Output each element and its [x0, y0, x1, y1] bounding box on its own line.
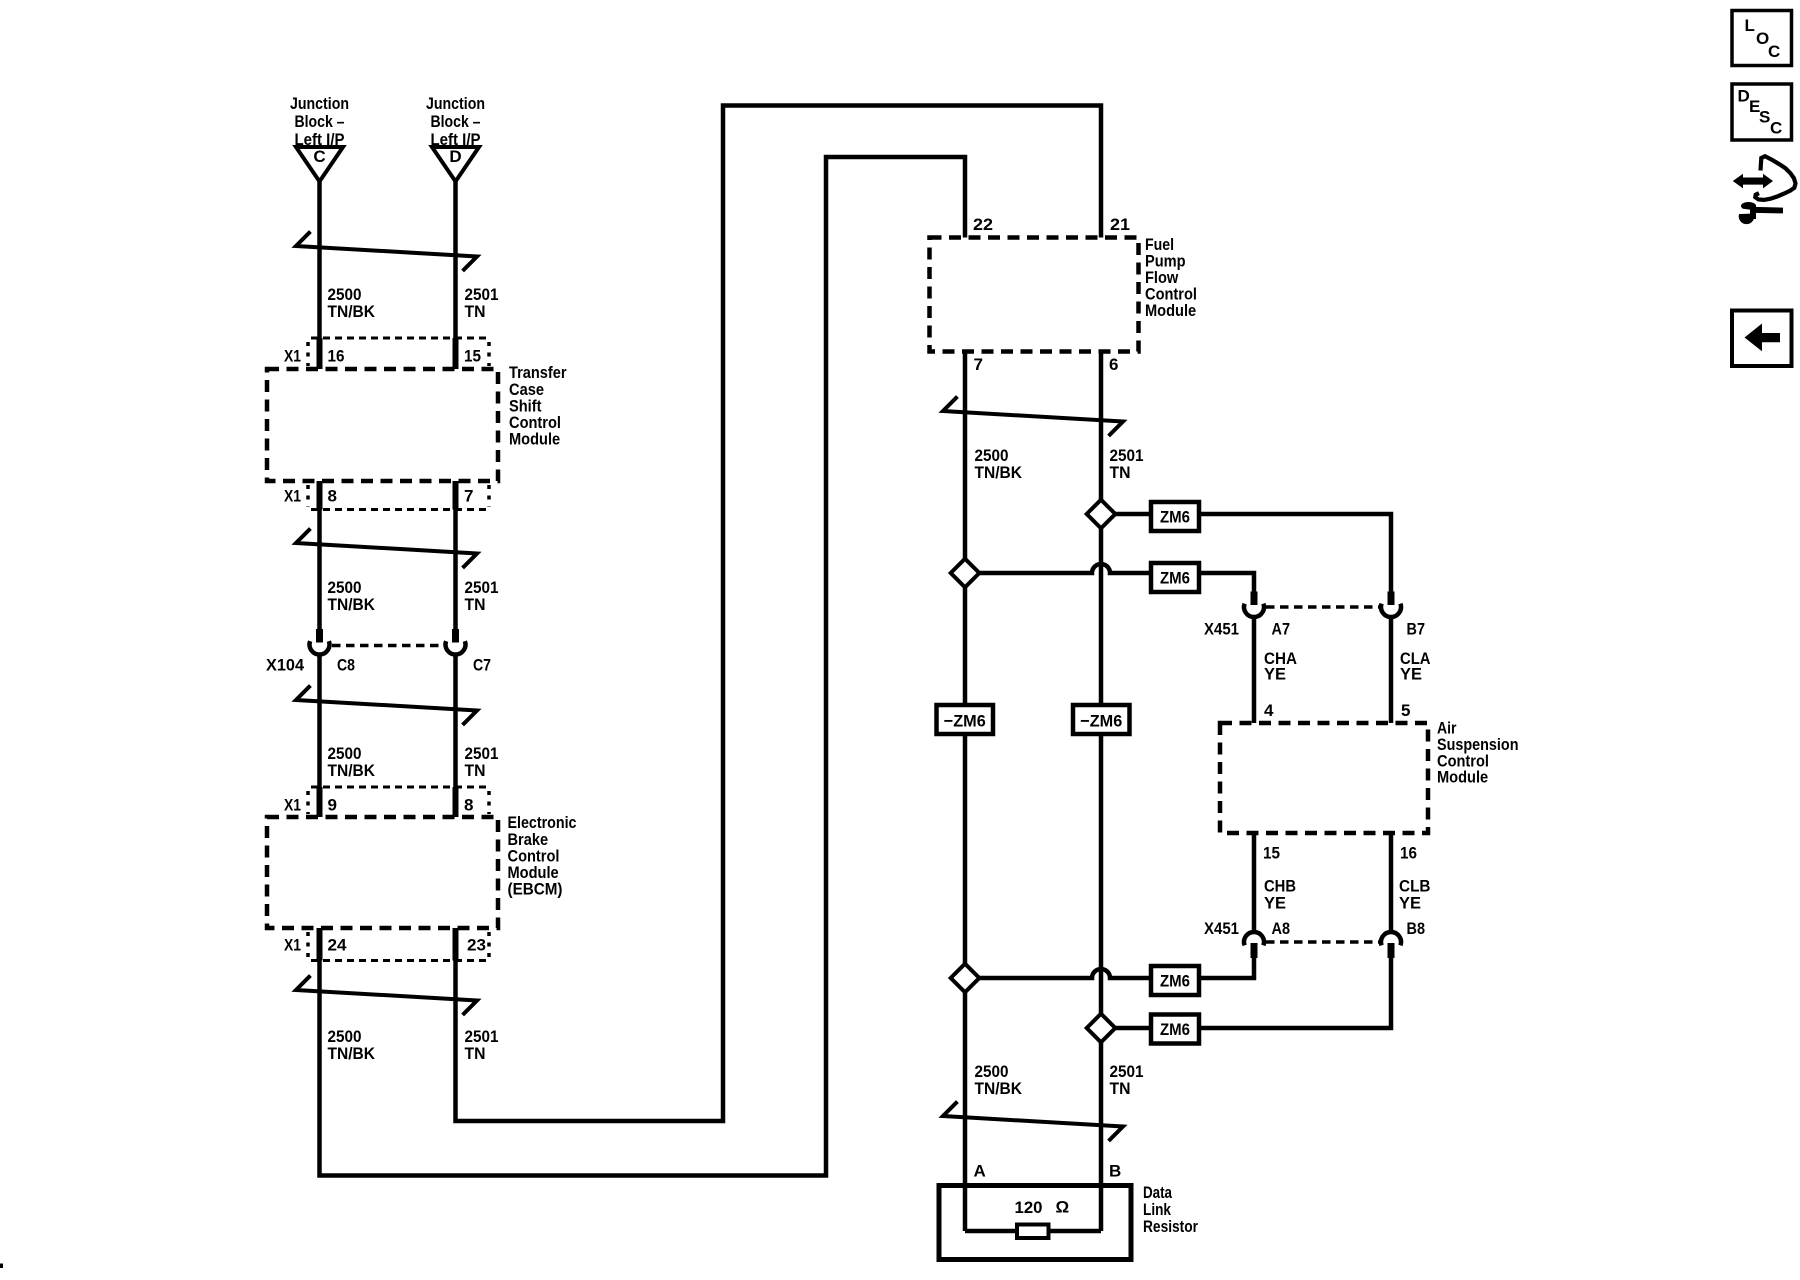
svg-text:L: L [1745, 16, 1755, 35]
connector X1 pin row dashed outline at y=338 [311, 337, 489, 340]
svg-text:16: 16 [328, 347, 345, 366]
svg-text:S: S [1759, 108, 1770, 127]
wire 2501 TN Transfer Case pin 7 to X104 C7 [453, 481, 458, 629]
wire 2500 TN/BK from junction block C down to Transfer Case module [317, 180, 322, 369]
svg-text:X1: X1 [284, 487, 301, 506]
svg-text:21: 21 [1110, 215, 1130, 234]
svg-text:X1: X1 [284, 936, 301, 955]
junction block C triangle [296, 147, 343, 182]
svg-text:Module: Module [509, 430, 560, 449]
svg-text:Module: Module [1145, 301, 1196, 320]
twisted pair symbol crossing both wires at y=543 [296, 530, 477, 567]
wire node on 2500 to ZM6 (hops over 2501) and down to X451 A7 [965, 564, 1254, 592]
LOC icon box [1732, 11, 1792, 66]
wire CHB YE from air suspension pin 15 to X451 A8 [1252, 833, 1257, 933]
Fuel Pump Flow Control Module box [930, 238, 1139, 352]
svg-text:YE: YE [1264, 665, 1286, 684]
svg-text:9: 9 [328, 796, 337, 815]
svg-text:A: A [974, 1162, 986, 1181]
svg-text:B8: B8 [1407, 919, 1426, 938]
svg-text:ZM6: ZM6 [1160, 569, 1190, 588]
svg-text:A7: A7 [1272, 620, 1291, 639]
back arrow icon box [1732, 311, 1792, 367]
harness tag ZM6 tag lower right [1151, 1015, 1199, 1044]
svg-text:TN/BK: TN/BK [328, 595, 376, 614]
svg-text:Block –: Block – [431, 112, 481, 131]
harness tag ZM6 tag upper right [1151, 502, 1199, 531]
splice diamond node on 2501 (lower) [1087, 1014, 1116, 1043]
svg-text:D: D [449, 147, 461, 166]
svg-text:TN: TN [465, 302, 486, 321]
twisted pair symbol crossing both wires at y=700 [296, 687, 477, 724]
svg-text:16: 16 [1400, 844, 1417, 863]
wire 2500 TN/BK EBCM pin 24 routed right and up to fuel pump pin 22 [320, 157, 966, 1176]
DESC icon box [1732, 84, 1792, 140]
svg-text:X1: X1 [284, 347, 301, 366]
svg-text:23: 23 [467, 936, 486, 955]
wire 2501 TN X104 C7 to EBCM pin 8 [453, 656, 458, 817]
svg-text:TN/BK: TN/BK [975, 463, 1023, 482]
wire 2500 TN/BK X104 C8 to EBCM pin 9 [317, 656, 322, 817]
svg-text:X451: X451 [1204, 620, 1239, 639]
svg-text:YE: YE [1400, 665, 1422, 684]
svg-text:C: C [1770, 119, 1782, 138]
svg-text:TN/BK: TN/BK [328, 761, 376, 780]
X104 dashed connector line [332, 644, 443, 648]
svg-text:C8: C8 [337, 656, 355, 675]
Air Suspension Control Module box [1220, 723, 1428, 833]
wire inside data link resistor box [965, 1229, 1101, 1234]
connector X1 pin row dashed outline at y=928 [311, 959, 489, 962]
svg-text:D: D [1738, 87, 1750, 106]
harness tag -ZM6 on 2500 [937, 705, 994, 734]
wire terminal bars through pin row y=338 [317, 338, 323, 369]
resistor 120 ohm symbol [1017, 1225, 1049, 1239]
svg-text:TN: TN [1110, 1079, 1131, 1098]
svg-text:TN/BK: TN/BK [328, 302, 376, 321]
svg-text:−ZM6: −ZM6 [1080, 712, 1122, 731]
svg-text:C7: C7 [473, 656, 491, 675]
splice diamond node on 2500 (lower) [951, 964, 980, 993]
svg-text:C: C [1768, 42, 1780, 61]
inline connector X104 C8 [316, 629, 323, 643]
wire CHA YE from X451 A7 to air suspension pin 4 [1252, 617, 1257, 724]
splice diamond node on 2500 (upper) [951, 559, 980, 588]
svg-text:X1: X1 [284, 796, 301, 815]
Data Link Resistor box [939, 1186, 1131, 1260]
svg-text:−ZM6: −ZM6 [944, 712, 986, 731]
wire 2500 TN/BK Transfer Case pin 8 to X104 C8 [317, 481, 322, 629]
svg-text:15: 15 [1263, 844, 1280, 863]
svg-text:A8: A8 [1272, 919, 1291, 938]
svg-text:Junction: Junction [426, 94, 485, 113]
svg-text:X451: X451 [1204, 919, 1239, 938]
svg-text:TN/BK: TN/BK [975, 1079, 1023, 1098]
X451 dashed connector line (A7-B7) [1266, 605, 1379, 609]
svg-text:7: 7 [974, 355, 983, 374]
svg-text:Resistor: Resistor [1143, 1217, 1198, 1236]
harness tag ZM6 tag lower left [1151, 966, 1199, 995]
connector X1 pin row dashed outline at y=481 [311, 508, 489, 511]
wire CLA YE from X451 B7 to air suspension pin 5 [1389, 617, 1394, 724]
svg-text:4: 4 [1264, 701, 1274, 720]
svg-text:ZM6: ZM6 [1160, 1020, 1190, 1039]
svg-text:C: C [313, 147, 325, 166]
splice diamond node on 2501 (upper) [1087, 500, 1116, 529]
wire terminal bars through pin row y=787 [317, 787, 323, 817]
svg-text:TN: TN [1110, 463, 1131, 482]
svg-text:ZM6: ZM6 [1160, 972, 1190, 991]
svg-text:24: 24 [328, 936, 348, 955]
svg-text:5: 5 [1401, 701, 1410, 720]
svg-text:TN: TN [465, 761, 486, 780]
svg-text:Junction: Junction [290, 94, 349, 113]
harness tag -ZM6 on 2501 [1073, 705, 1130, 734]
wire 2501 TN from junction block D down to Transfer Case module [453, 180, 458, 369]
wire node on 2501 to ZM6 and up to X451 B8 [1101, 958, 1391, 1028]
svg-text:TN: TN [465, 1044, 486, 1063]
svg-text:Block –: Block – [295, 112, 345, 131]
inline connector X451 A8 [1244, 932, 1264, 945]
wire 2500 TN/BK fuel pump pin 7 down to data link resistor A [963, 352, 968, 1232]
twisted pair symbol crossing both wires at y=1116 [943, 1103, 1123, 1140]
svg-text:6: 6 [1109, 355, 1118, 374]
svg-text:TN: TN [465, 595, 486, 614]
wire 2501 TN fuel pump pin 6 down to data link resistor B [1099, 352, 1104, 1232]
inline connector X451 A7 [1251, 592, 1258, 606]
wire terminal bars through pin row y=481 [317, 481, 323, 510]
harness tag ZM6 tag upper left [1151, 563, 1199, 592]
svg-text:(EBCM): (EBCM) [508, 880, 563, 899]
diagnostic tool icon (double arrow, swoosh, wrench) [1733, 174, 1773, 189]
svg-text:YE: YE [1399, 894, 1421, 913]
svg-text:X104: X104 [266, 656, 305, 675]
wire node on 2500 to ZM6 (hops over 2501) and up to X451 A8 [965, 958, 1254, 978]
inline connector X451 B8 [1381, 932, 1401, 945]
stray mark bottom left edge [0, 1264, 3, 1269]
svg-text:8: 8 [464, 796, 473, 815]
svg-text:Module: Module [1437, 768, 1488, 787]
svg-text:8: 8 [328, 487, 337, 506]
twisted pair symbol crossing both wires at y=990 [296, 977, 477, 1014]
svg-text:Ω: Ω [1056, 1198, 1070, 1217]
inline connector X104 C7 [452, 629, 459, 643]
svg-text:B: B [1109, 1162, 1121, 1181]
svg-text:22: 22 [973, 215, 993, 234]
wire terminal bars through pin row y=928 [317, 928, 323, 961]
svg-text:YE: YE [1264, 894, 1286, 913]
svg-text:TN/BK: TN/BK [328, 1044, 376, 1063]
wire 2501 TN EBCM pin 23 routed right and up to fuel pump pin 21 [456, 106, 1102, 1122]
wire node on 2501 to ZM6 and down to X451 B7 [1101, 514, 1391, 592]
svg-text:120: 120 [1015, 1198, 1043, 1217]
inline connector X451 B7 [1388, 592, 1395, 606]
svg-text:15: 15 [464, 347, 481, 366]
Transfer Case Shift Control Module box [267, 369, 498, 481]
Electronic Brake Control Module (EBCM) box [267, 817, 498, 928]
wire CLB YE from air suspension pin 16 to X451 B8 [1389, 833, 1394, 933]
connector X1 pin row dashed outline at y=787 [311, 786, 489, 789]
twisted pair symbol crossing both wires at y=246 [296, 233, 477, 270]
X451 dashed connector line (A8-B8) [1266, 940, 1379, 944]
svg-text:7: 7 [464, 487, 473, 506]
junction block D triangle [432, 147, 479, 182]
svg-text:ZM6: ZM6 [1160, 508, 1190, 527]
twisted pair symbol crossing both wires at y=411 [943, 398, 1123, 435]
svg-text:B7: B7 [1407, 620, 1426, 639]
